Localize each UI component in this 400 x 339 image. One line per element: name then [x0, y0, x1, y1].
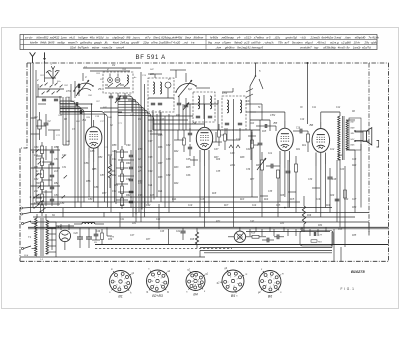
pickup switch S6: [246, 63, 263, 130]
svg-text:8f6: 8f6: [126, 36, 130, 40]
svg-text:629dxg: 629dxg: [161, 36, 171, 40]
svg-text:R13: R13: [250, 123, 255, 125]
svg-text:C83: C83: [54, 194, 59, 197]
svg-text:0h95: 0h95: [48, 41, 55, 45]
svg-text:R19: R19: [251, 233, 256, 235]
svg-text:,.ed: ,.ed: [183, 41, 188, 45]
resistor R18: [190, 228, 199, 248]
svg-text:Cc8: Cc8: [200, 198, 205, 201]
svg-text:m: m: [282, 273, 284, 276]
switch arms lower left: [33, 194, 45, 213]
svg-text:C44: C44: [300, 228, 305, 231]
ladder stub wires left: [46, 146, 49, 206]
svg-text:C42: C42: [156, 218, 161, 221]
svg-text:C82: C82: [34, 178, 39, 181]
svg-text:..kve: ..kve: [215, 45, 221, 49]
tuning gang capacitor C1: [73, 73, 94, 96]
svg-text:Rc4: Rc4: [264, 198, 269, 201]
svg-text:R68: R68: [158, 176, 163, 179]
B4 cathode components: [183, 128, 193, 156]
svg-text:C41: C41: [120, 218, 125, 221]
detector capacitor C14: [258, 134, 263, 156]
svg-text:a: a: [265, 281, 266, 283]
svg-text:21ew2t: 21ew2t: [310, 36, 321, 40]
svg-text:4700: 4700: [66, 90, 72, 93]
svg-text:1ws3r: 1ws3r: [353, 45, 362, 49]
svg-text:Rb9: Rb9: [256, 164, 261, 167]
wire HT feed drop: [307, 62, 309, 124]
svg-text:b6xm952: b6xm952: [37, 36, 49, 40]
dial lamp assembly: [228, 227, 252, 242]
output stage lower network: [330, 144, 361, 222]
svg-text:C15: C15: [220, 135, 225, 137]
wire loom antenna section: [60, 101, 108, 150]
extra wire stubs middle: [150, 130, 320, 196]
svg-text:Rc2: Rc2: [338, 154, 343, 157]
svg-text:Cc3: Cc3: [352, 158, 357, 161]
svg-text:Rc7: Rc7: [224, 204, 229, 207]
svg-text:hv5gne: hv5gne: [78, 36, 88, 40]
svg-text:C35: C35: [216, 171, 221, 173]
svg-text:h: h: [237, 279, 238, 281]
svg-text:22rp: 22rp: [142, 41, 149, 45]
svg-text:e0hpbf0-: e0hpbf0-: [355, 36, 366, 40]
coupling capacitor C16: [293, 128, 308, 134]
supply rail wires: [20, 136, 389, 257]
tube B4 IF amplifier: [193, 121, 213, 166]
svg-text:,49,hx1: ,49,hx1: [316, 41, 326, 45]
texture labels upper left: [40, 68, 155, 153]
svg-text:R63: R63: [138, 180, 143, 183]
svg-text:R31: R31: [132, 223, 137, 225]
svg-text:22k: 22k: [33, 190, 39, 193]
svg-text:C91: C91: [112, 158, 117, 161]
svg-text:p15: p15: [244, 41, 250, 45]
svg-text:Cb3: Cb3: [166, 158, 171, 161]
tube B5 AF amplifier: [274, 121, 294, 168]
svg-text:R34: R34: [318, 224, 323, 227]
svg-text:R25: R25: [150, 195, 155, 197]
svg-text:s0uf7d: s0uf7d: [362, 45, 371, 49]
svg-text:29c: 29c: [364, 41, 370, 45]
svg-text:R62: R62: [112, 174, 117, 177]
svg-text:R20: R20: [352, 165, 357, 167]
svg-text:a: a: [237, 283, 238, 285]
valve socket diagram B6: [258, 268, 284, 298]
ladder cross wires left: [31, 146, 61, 206]
wire padder vertical drops: [153, 112, 173, 213]
IF transformer 2 shield box: [222, 96, 246, 130]
tube B6 output pentode: [310, 122, 330, 170]
svg-text:t410d: t410d: [96, 36, 104, 40]
svg-text:0ssz: 0ssz: [185, 36, 191, 40]
svg-text:R32: R32: [216, 221, 221, 223]
svg-text:38V: 38V: [351, 133, 355, 135]
svg-text:R57: R57: [102, 192, 107, 195]
svg-text:C96: C96: [148, 130, 153, 133]
smoothing capacitor C21: [86, 228, 92, 248]
svg-text:-vezv,5z: -vezv,5z: [102, 45, 113, 49]
svg-text:R33: R33: [280, 223, 285, 225]
svg-text:C90: C90: [126, 144, 131, 147]
svg-text:C71: C71: [118, 123, 122, 125]
svg-text:R65: R65: [158, 134, 163, 137]
svg-text:C36: C36: [246, 169, 251, 171]
chassis shield boundary dash-dot border: [20, 63, 389, 261]
capacitor C24: [262, 238, 274, 243]
svg-text:c4-: c4-: [237, 36, 241, 40]
svg-text:Rc8: Rc8: [212, 192, 217, 195]
wire mixer grid leads: [60, 96, 92, 127]
valve socket diagram B1: [109, 268, 135, 298]
filter choke: [74, 222, 104, 224]
svg-text:chp5mp0: chp5mp0: [112, 36, 124, 40]
svg-text:a: a: [154, 284, 155, 286]
svg-text:4.s20: 4.s20: [173, 41, 180, 45]
svg-text:B2+B3: B2+B3: [152, 294, 163, 298]
svg-text:C31: C31: [62, 167, 67, 169]
svg-text:R35: R35: [352, 235, 357, 237]
svg-text:4wzt: 4wzt: [113, 41, 119, 45]
svg-text:10-kr: 10-kr: [354, 41, 362, 45]
svg-text:m: m: [111, 268, 113, 271]
svg-text:R21: R21: [296, 149, 301, 151]
svg-text:C43: C43: [250, 220, 255, 223]
detector load resistor R10: [251, 130, 259, 160]
svg-text:u513-: u513-: [244, 36, 251, 40]
svg-text:B5: B5: [274, 121, 278, 125]
heater supply wires: [200, 232, 332, 257]
svg-text:F I G. 1: F I G. 1: [341, 287, 355, 291]
svg-text:h: h: [121, 277, 122, 279]
svg-text:xw8gr: xw8gr: [56, 41, 66, 45]
svg-text:C88: C88: [94, 186, 99, 189]
svg-text:x7w8na: x7w8na: [253, 36, 264, 40]
svg-text:R61: R61: [318, 242, 322, 244]
svg-text:1k2: 1k2: [34, 154, 39, 157]
svg-text:R54: R54: [98, 156, 103, 159]
svg-text:C33: C33: [138, 183, 143, 185]
svg-text:wswn7r: wswn7r: [68, 41, 79, 45]
svg-text:Cd2: Cd2: [146, 204, 151, 207]
svg-text:Rb4: Rb4: [174, 182, 179, 185]
svg-text:6eb4h2w: 6eb4h2w: [322, 36, 335, 40]
svg-text:0.5M: 0.5M: [270, 115, 275, 117]
svg-text:Rb8: Rb8: [240, 156, 245, 159]
svg-text:R41: R41: [103, 106, 107, 109]
svg-text:1M: 1M: [112, 65, 115, 67]
valve socket diagram B5: [217, 267, 247, 298]
svg-text:..t15c: ..t15c: [273, 36, 281, 40]
svg-text:84dk: 84dk: [40, 41, 47, 45]
svg-text:46u: 46u: [90, 36, 95, 40]
svg-text:C87: C87: [100, 174, 105, 177]
svg-text:C20: C20: [74, 233, 79, 235]
extra switch arm ticks left ladder: [36, 149, 68, 198]
svg-text:ek,0: ek,0: [69, 36, 75, 40]
svg-text:xmz: xmz: [214, 41, 221, 45]
svg-text:B4: B4: [193, 121, 197, 125]
svg-text:B10278: B10278: [351, 269, 365, 274]
svg-text:R67: R67: [158, 162, 163, 165]
svg-text:75h: 75h: [278, 41, 283, 45]
component value labels: [35, 65, 357, 241]
transformer T1 connection stubs: [49, 222, 75, 257]
svg-text:grstm7gf: grstm7gf: [286, 36, 298, 40]
svg-text:C85: C85: [90, 150, 95, 153]
capacitor C22: [176, 228, 186, 240]
svg-text:R53: R53: [34, 202, 39, 205]
svg-text:R22: R22: [108, 155, 113, 157]
bottom band component row: [92, 204, 169, 245]
svg-text:m: m: [245, 273, 247, 276]
svg-text:C39: C39: [308, 179, 313, 181]
svg-text:R27: R27: [250, 179, 255, 181]
oscillator coil unit dashed shield: [103, 68, 133, 94]
svg-text:C98: C98: [148, 156, 153, 159]
antenna terminal: [30, 52, 36, 63]
svg-text:pkt445d: pkt445d: [171, 36, 183, 40]
svg-text:B4: B4: [193, 292, 197, 296]
svg-text:C93: C93: [126, 178, 131, 181]
svg-text:Rb5: Rb5: [186, 166, 191, 169]
title block parts table: [20, 35, 379, 50]
svg-text:Cc4: Cc4: [252, 204, 257, 207]
capacitor C18: [80, 110, 100, 118]
svg-text:Cc6: Cc6: [316, 198, 321, 201]
svg-text:4mv5-.9v: 4mv5-.9v: [338, 45, 350, 49]
svg-text:a: a: [162, 282, 163, 284]
svg-text:u838c9dp: u838c9dp: [323, 45, 336, 49]
svg-text:8µF: 8µF: [188, 89, 193, 91]
power transformer T1: [28, 214, 49, 256]
svg-text:edrne: edrne: [92, 45, 100, 49]
svg-text:a: a: [234, 276, 235, 278]
svg-text:C61: C61: [40, 75, 44, 77]
svg-text:R29: R29: [330, 195, 335, 197]
svg-text:C84: C84: [60, 202, 65, 205]
svg-text:C92: C92: [138, 166, 143, 169]
svg-text:grcs8f: grcs8f: [131, 41, 140, 45]
svg-text:,bcx-c: ,bcx-c: [132, 36, 140, 40]
gram input terminals: [21, 207, 31, 215]
detector stage wires: [246, 104, 276, 131]
svg-text:zx-cb-: zx-cb-: [24, 36, 33, 40]
valve socket diagram B4: [186, 268, 209, 296]
svg-text:Ca1: Ca1: [148, 184, 153, 187]
svg-text:B7: B7: [58, 225, 62, 229]
svg-text:2e9,xg: 2e9,xg: [119, 41, 129, 45]
resistor R9 zigzag: [108, 156, 115, 188]
rectifier tube B7: [58, 224, 71, 250]
loudspeaker: [355, 128, 372, 145]
svg-text:23-4: 23-4: [23, 254, 29, 257]
svg-text:C19: C19: [300, 119, 305, 121]
svg-text:R10: R10: [254, 145, 259, 147]
svg-text:s: s: [228, 281, 229, 283]
capacitor chain right column: [129, 150, 133, 208]
heater loop rounded box: [300, 217, 345, 261]
wire top distribution: [94, 100, 340, 140]
svg-text:C23: C23: [340, 169, 345, 171]
svg-text:R60: R60: [126, 162, 131, 165]
extra annotation labels dense zones: [33, 130, 357, 207]
svg-text:-gbfd: -gbfd: [371, 41, 378, 45]
svg-text:gszgh: gszgh: [94, 41, 102, 45]
volume control network: [257, 152, 298, 186]
valve socket diagram B2+B3: [146, 268, 170, 298]
svg-text:av7: av7: [285, 41, 290, 45]
svg-text:Rc6: Rc6: [326, 204, 331, 207]
svg-text:C17: C17: [236, 139, 241, 141]
svg-text:R55: R55: [92, 168, 97, 171]
AVC bus wires: [33, 197, 300, 208]
svg-text:R37: R37: [146, 239, 151, 241]
wire bottom band drops: [246, 227, 330, 236]
svg-text:.8tb9me: .8tb9me: [193, 36, 204, 40]
svg-text:.tu: .tu: [106, 36, 110, 40]
svg-text:R64: R64: [126, 194, 131, 197]
svg-text:vmskbh7: vmskbh7: [300, 45, 312, 49]
svg-text:270: 270: [35, 159, 41, 161]
svg-text:gx8xxbkc: gx8xxbkc: [80, 41, 93, 45]
svg-text:R52: R52: [54, 182, 59, 185]
svg-text:470k: 470k: [222, 92, 228, 95]
svg-text:B5: B5: [231, 294, 235, 298]
svg-text:C80: C80: [34, 146, 39, 149]
svg-text:R50: R50: [54, 146, 59, 149]
texture wires upper left: [31, 68, 142, 140]
svg-text:C89: C89: [88, 198, 93, 201]
svg-text:R59: R59: [138, 148, 143, 151]
IF link wires middle: [141, 70, 233, 124]
tone capacitor C18: [327, 168, 337, 190]
capacitor chain left column: [50, 146, 54, 206]
wire long vertical pair: [141, 80, 145, 217]
svg-text:R26: R26: [216, 159, 221, 161]
svg-text:Rc1: Rc1: [302, 144, 307, 147]
svg-text:R15: R15: [262, 131, 267, 133]
svg-text:Cb9: Cb9: [246, 148, 251, 151]
tuning gang capacitor C5: [175, 73, 197, 97]
svg-text:h: h: [119, 286, 120, 288]
svg-text:hr9t0s: hr9t0s: [210, 36, 219, 40]
svg-text:w1rs.g: w1rs.g: [330, 41, 339, 45]
svg-text:B1: B1: [118, 294, 122, 298]
wire antenna down-lead rails: [30, 63, 45, 213]
tube B1 mixer ECH81: [83, 118, 102, 162]
output transformer T2: [338, 112, 361, 166]
svg-text:kbe9e: kbe9e: [30, 41, 38, 45]
grid resistor R12: [307, 131, 310, 152]
resistor chain left column: [41, 142, 44, 216]
svg-text:C97: C97: [148, 140, 153, 143]
wire bundle IF coupling: [75, 150, 115, 212]
svg-text:R51: R51: [34, 166, 39, 169]
waveband switch S1 contact cluster: [36, 78, 64, 101]
wire vertical drops: [63, 88, 369, 232]
svg-text:a: a: [266, 285, 267, 287]
svg-text:R66: R66: [158, 146, 163, 149]
svg-text:Rb7: Rb7: [214, 156, 219, 159]
svg-text:4n7: 4n7: [54, 170, 59, 173]
svg-text:tvg-: tvg-: [314, 45, 319, 49]
svg-text:7s-91nh: 7s-91nh: [368, 36, 379, 40]
svg-text:xnxu4: xnxu4: [115, 45, 124, 49]
svg-text:ze09xsap: ze09xsap: [221, 36, 235, 40]
svg-text:a7ea: a7ea: [151, 41, 158, 45]
svg-text:220k: 220k: [229, 165, 236, 167]
capacitor C2: [44, 114, 52, 136]
oscillator padder unit dashed shield: [148, 78, 174, 112]
speaker terminal bracket: [377, 141, 379, 148]
svg-text:R56: R56: [86, 180, 91, 183]
svg-text:vt7u: vt7u: [145, 36, 151, 40]
svg-text:R36: R36: [108, 239, 113, 241]
svg-text:C99: C99: [148, 170, 153, 173]
IF transformer 1 shield box: [193, 92, 215, 122]
svg-text:xa0432: xa0432: [49, 36, 60, 40]
svg-text:Cc9: Cc9: [188, 204, 193, 207]
capacitor C17 grid coupling: [71, 101, 78, 106]
svg-text:C47: C47: [130, 234, 135, 237]
svg-text:gfe0km: gfe0km: [225, 45, 235, 49]
svg-text:C95: C95: [138, 194, 143, 197]
svg-text:Cc1: Cc1: [268, 152, 273, 155]
svg-text:R18: R18: [190, 239, 195, 241]
antenna coil L1 crowfoot: [46, 62, 60, 85]
svg-text:C86: C86: [84, 162, 89, 165]
svg-text:0hm1: 0hm1: [153, 36, 161, 40]
svg-text:2xp508m7: 2xp508m7: [158, 41, 173, 45]
svg-text:Cb8: Cb8: [230, 152, 235, 155]
ladder cross wires right: [116, 150, 136, 216]
svg-text:BF 591 A: BF 591 A: [136, 55, 166, 61]
svg-text:Cc5: Cc5: [276, 204, 281, 207]
svg-text:Cb5: Cb5: [186, 158, 191, 161]
svg-text:u7genr: u7genr: [222, 41, 232, 45]
svg-text:5w.atzm: 5w.atzm: [292, 41, 303, 45]
svg-text:C81: C81: [54, 158, 59, 161]
lamp resistor R19: [251, 233, 266, 239]
svg-text:C94: C94: [112, 190, 117, 193]
svg-text:C38: C38: [268, 191, 273, 193]
svg-text:C46: C46: [96, 230, 101, 233]
svg-text:,-chxd,k: ,-chxd,k: [263, 41, 274, 45]
svg-text:h: h: [116, 285, 117, 287]
svg-text:Cc7: Cc7: [352, 198, 357, 201]
svg-text:C12: C12: [336, 107, 341, 109]
svg-text:3-zsd: 3-zsd: [334, 36, 341, 40]
svg-text:Cc2: Cc2: [330, 148, 335, 151]
svg-text:Rd3: Rd3: [120, 204, 125, 207]
svg-text:R23: R23: [114, 185, 119, 187]
wire bundle below switch: [63, 97, 69, 145]
svg-text:Rd1: Rd1: [172, 198, 177, 201]
svg-text:R28: R28: [280, 195, 285, 197]
svg-text:B6: B6: [310, 123, 314, 127]
svg-text:Ra1: Ra1: [158, 190, 163, 193]
svg-text:Rc5: Rc5: [290, 198, 295, 201]
svg-text:R58: R58: [112, 144, 117, 147]
svg-text:Cb4: Cb4: [166, 174, 171, 177]
svg-text:kemsgv5: kemsgv5: [252, 45, 264, 49]
svg-text:1znx: 1znx: [61, 36, 68, 40]
svg-text:Cb2: Cb2: [166, 144, 171, 147]
resistor R2 grid leak: [35, 112, 42, 140]
svg-text:,ffc: ,ffc: [104, 41, 108, 45]
svg-text:B6: B6: [268, 294, 272, 298]
